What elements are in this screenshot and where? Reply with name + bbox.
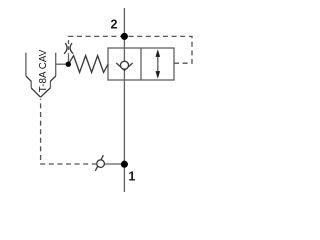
cavity outline left taper (26, 76, 41, 97)
pilot line dashed: box to port2 tap to orifice (69, 36, 193, 63)
cavity outline right wall (55, 53, 57, 76)
drain line dashed: cavity down and right to test point (41, 99, 97, 164)
cavity outline left step (30, 81, 32, 88)
wire: orifice to spring node (68, 53, 70, 64)
wire: main vertical line port 2 to port 1 (123, 8, 125, 192)
test point slash (95, 155, 103, 171)
cavity outline left wall (25, 53, 27, 76)
svg-text:2: 2 (111, 18, 118, 32)
valve body divider (140, 48, 142, 80)
wire: test point to port1 node (104, 163, 124, 165)
orifice left arc (64, 43, 67, 54)
orifice center tick (68, 46, 70, 50)
valve body U1 two-position boxes (108, 48, 174, 80)
check valve seat V (116, 63, 132, 70)
wire: stub from cavity to spring node (56, 63, 69, 65)
cavity outline right step (49, 81, 51, 88)
flow arrow head up (156, 49, 161, 57)
orifice right arc (70, 43, 73, 54)
flow arrow head down (156, 71, 161, 79)
node: pilot tap junction at port 2 (121, 33, 128, 40)
svg-text:T-8A CAV: T-8A CAV (38, 50, 49, 93)
svg-text:1: 1 (128, 170, 135, 184)
cavity outline right taper (41, 76, 56, 97)
spring (68, 56, 108, 73)
check valve ball (121, 61, 129, 69)
node: port 1 junction (121, 161, 128, 168)
node: spring pilot junction (66, 61, 71, 66)
test point circle (97, 160, 105, 168)
flow arrow shaft in right box (157, 54, 159, 74)
